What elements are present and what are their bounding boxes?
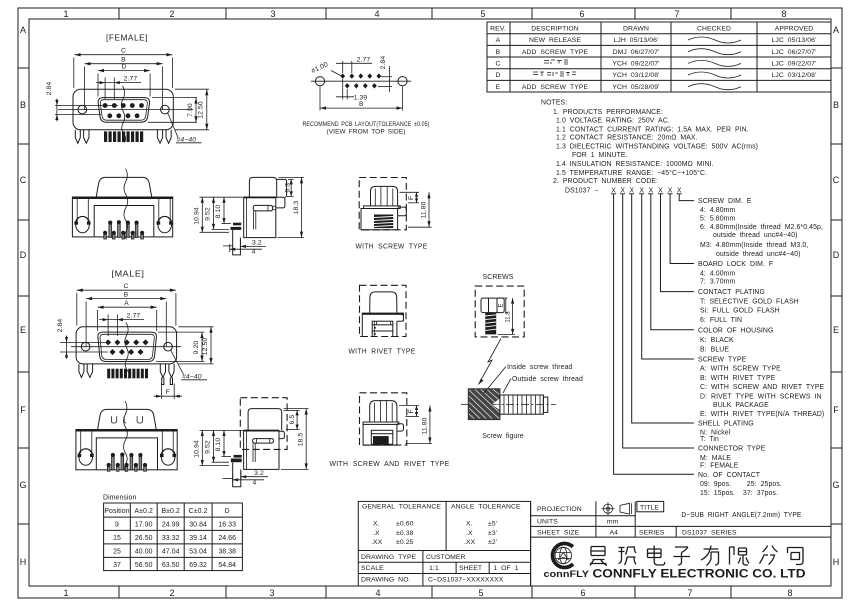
rear side ribs male — [81, 432, 174, 454]
svg-text:REV.: REV. — [490, 26, 506, 33]
svg-text:F: F — [833, 405, 839, 415]
male board lock legs left — [79, 364, 93, 378]
frame column ticks bottom — [119, 586, 731, 598]
dimension table row 25 — [113, 549, 236, 556]
rear side ribs female — [77, 199, 170, 221]
male d-shell inner — [100, 334, 154, 359]
svg-text:F: FEMALE: F: FEMALE — [700, 463, 739, 470]
svg-text:16.33: 16.33 — [218, 522, 236, 529]
pcb dim 2.84 — [378, 66, 392, 92]
male pins row1 — [105, 339, 148, 345]
svg-text:2: 2 — [169, 9, 174, 19]
svg-text:F: F — [20, 405, 26, 415]
pcb pads row2 — [345, 83, 377, 88]
dim C female — [74, 53, 173, 88]
female board lock legs right — [157, 130, 171, 144]
svg-text:PROJECTION: PROJECTION — [537, 506, 582, 513]
svg-text:outside thread unc#4−40): outside thread unc#4−40) — [716, 251, 801, 258]
svg-text:CHECKED: CHECKED — [697, 26, 731, 33]
svg-text:YCH 03/12/08': YCH 03/12/08' — [612, 72, 659, 79]
svg-text:WITH SCREW AND RIVET TYPE: WITH SCREW AND RIVET TYPE — [330, 459, 450, 468]
male mounting hole left — [81, 342, 90, 351]
svg-text:D: D — [495, 72, 500, 79]
screws dim 11.8 — [498, 298, 516, 334]
svg-text:A: A — [124, 300, 129, 307]
female socket pins row2 — [107, 113, 139, 118]
svg-text:38.38: 38.38 — [218, 549, 236, 556]
svg-text:YCH 09/22/07': YCH 09/22/07' — [612, 61, 659, 68]
product tree labels connector type — [698, 446, 766, 470]
rivet shell dome — [370, 292, 397, 313]
svg-text:4: 4 — [252, 479, 256, 486]
side shell top — [249, 177, 276, 197]
svg-text:15: 15 — [113, 535, 121, 542]
svg-text:ANGLE TOLERANCE: ANGLE TOLERANCE — [451, 504, 521, 511]
svg-text:B±0.2: B±0.2 — [161, 508, 180, 515]
dim A male — [98, 306, 157, 332]
side shell top male — [248, 409, 282, 431]
svg-text:.X: .X — [373, 530, 380, 537]
rear inner cavity male — [96, 438, 157, 470]
svg-text:1.4 INSULATION RESISTANCE: 100: 1.4 INSULATION RESISTANCE: 1000MΩ MINI. — [556, 161, 714, 168]
revision row C chinese description — [544, 60, 568, 64]
svg-text:18.5: 18.5 — [298, 433, 305, 447]
screws dim E — [498, 298, 508, 313]
dim 11.80 — [408, 192, 432, 227]
rivet body outline — [362, 313, 403, 337]
svg-text:DESCRIPTION: DESCRIPTION — [531, 26, 579, 33]
notes text block — [541, 100, 758, 195]
frame row letters left — [19, 25, 26, 567]
product tree leader X8 screw dim — [679, 194, 694, 201]
svg-text:4: 4 — [375, 588, 380, 598]
female break squiggle — [121, 86, 125, 143]
svg-text:4: 4 — [374, 9, 379, 19]
svg-text:1:1: 1:1 — [429, 565, 439, 572]
dim 2.84 male — [60, 336, 108, 360]
svg-text:7: 7 — [674, 9, 679, 19]
product tree leader X5 color of housing — [651, 194, 694, 330]
svg-text:SHEET SIZE: SHEET SIZE — [537, 529, 580, 536]
dim 12.50 male — [179, 327, 214, 364]
tolerance block grid — [358, 501, 530, 586]
svg-text:T: SELECTIVE GOLD FLASH: T: SELECTIVE GOLD FLASH — [700, 298, 799, 305]
svg-text:X: X — [639, 187, 644, 194]
svg-text:.XX: .XX — [464, 539, 476, 546]
product tree labels contact plating — [698, 289, 799, 324]
flange bar — [364, 206, 401, 209]
svg-text:CONTACT PLATING: CONTACT PLATING — [698, 289, 765, 296]
svg-text:±0.25: ±0.25 — [396, 539, 414, 546]
svg-text:B: WITH RIVET TYPE: B: WITH RIVET TYPE — [700, 375, 776, 382]
svg-text:A4: A4 — [609, 529, 618, 536]
screws dashed box — [475, 286, 524, 337]
svg-text:11.80: 11.80 — [421, 417, 428, 434]
svg-text:A±0.2: A±0.2 — [134, 508, 153, 515]
svg-text:2.77: 2.77 — [127, 313, 141, 320]
right step — [398, 207, 407, 216]
svg-text:09: 9pos. 25: 25pos.: 09: 9pos. 25: 25pos. — [700, 481, 782, 488]
svg-text:Si: FULL GOLD FLASH: Si: FULL GOLD FLASH — [700, 308, 780, 315]
svg-text:1.1 CONTACT CURRENT RATING: 1.: 1.1 CONTACT CURRENT RATING: 1.5A MAX. PE… — [556, 126, 749, 133]
dim 10.94 — [200, 197, 244, 232]
screw figure centerline — [461, 403, 556, 405]
product tree leader X7 board lock — [670, 194, 694, 264]
svg-text:E: E — [20, 325, 26, 335]
svg-text:63.50: 63.50 — [162, 562, 180, 569]
male break squiggle — [125, 323, 129, 379]
product tree leader X4 screw type — [642, 194, 694, 359]
rear body female — [72, 197, 172, 237]
svg-text:X: X — [648, 187, 653, 194]
svg-text:±3': ±3' — [488, 530, 497, 537]
dimension table row 15 — [113, 535, 236, 542]
connfly logo mark — [553, 543, 573, 567]
svg-text:±0.38: ±0.38 — [396, 530, 414, 537]
4-40 leader female — [168, 113, 179, 138]
rivet body top bar — [362, 313, 403, 315]
rear body top thick edge female — [72, 197, 172, 199]
svg-text:4: 4.00mm: 4: 4.00mm — [700, 271, 736, 278]
sr dim F — [399, 406, 419, 417]
svg-text:E: E — [496, 84, 501, 91]
svg-text:BOARD LOCK DIM. F: BOARD LOCK DIM. F — [698, 261, 773, 268]
sr screw head — [370, 401, 397, 422]
svg-text:6: 6 — [580, 588, 585, 598]
svg-text:Inside screw thread: Inside screw thread — [507, 364, 573, 371]
dim C male — [77, 289, 176, 326]
male pcb pins black bars — [107, 369, 148, 379]
svg-text:A: A — [20, 25, 26, 35]
svg-text:LJC 03/12/08': LJC 03/12/08' — [772, 72, 817, 79]
revision row E — [496, 84, 660, 91]
svg-text:Position: Position — [104, 508, 129, 515]
dim 9.52 male — [212, 430, 230, 462]
svg-text:APPROVED: APPROVED — [775, 26, 814, 33]
product tree leader X2 connector type — [623, 194, 694, 448]
revision table grid — [487, 22, 831, 92]
svg-text:3: 3 — [269, 588, 274, 598]
dim F — [400, 192, 420, 203]
drawing no row — [361, 577, 504, 584]
svg-text:1.5 TEMPERATURE RANGE: −45°C~+: 1.5 TEMPERATURE RANGE: −45°C~+105°C. — [556, 169, 707, 177]
svg-text:11.80: 11.80 — [420, 201, 427, 218]
sr right step — [397, 424, 404, 431]
svg-text:8: 8 — [787, 588, 792, 598]
thread black — [374, 215, 393, 229]
svg-text:4: 4 — [252, 248, 256, 255]
svg-text:56.50: 56.50 — [135, 562, 153, 569]
svg-text:DRAWN: DRAWN — [623, 26, 649, 33]
svg-text:53.04: 53.04 — [189, 549, 207, 556]
svg-text:3: 3 — [270, 9, 275, 19]
svg-text:8.10: 8.10 — [215, 438, 222, 452]
male mounting hole right — [164, 342, 173, 351]
dim 2.84 female — [55, 99, 118, 122]
screw head — [371, 186, 398, 206]
female d-shell inner — [100, 100, 147, 121]
svg-text:B: B — [496, 49, 501, 56]
svg-text:CONNECTOR TYPE: CONNECTOR TYPE — [698, 446, 766, 453]
dim B female — [85, 62, 163, 110]
svg-text:2.84: 2.84 — [380, 56, 387, 70]
rear inner cavity female — [94, 206, 154, 237]
svg-text:10.94: 10.94 — [194, 207, 201, 225]
frame column numbers bottom — [63, 588, 792, 598]
svg-text:DRAWING TYPE: DRAWING TYPE — [361, 554, 417, 561]
drawing type / customer row — [361, 554, 466, 561]
sr rivet black — [373, 436, 389, 444]
product tree labels no of contact — [698, 472, 782, 497]
svg-text:LJH 05/13/06': LJH 05/13/06' — [614, 37, 659, 44]
svg-text:9.52: 9.52 — [205, 207, 212, 221]
side body male — [244, 430, 279, 469]
product tree labels shell plating — [698, 421, 754, 443]
product code X underlines — [611, 193, 682, 195]
side clip slot male — [253, 439, 274, 444]
svg-text:8: 8 — [781, 9, 786, 19]
svg-text:39.14: 39.14 — [189, 535, 207, 542]
svg-text:BULK PACKAGE: BULK PACKAGE — [713, 402, 769, 409]
svg-text:outside thread unc#4−40): outside thread unc#4−40) — [713, 232, 798, 239]
svg-text:M3: 4.80mm(Inside thread M3.0,: M3: 4.80mm(Inside thread M3.0, — [700, 242, 808, 249]
male board lock legs right — [160, 364, 174, 378]
frame column numbers top — [63, 9, 786, 19]
svg-text:24.66: 24.66 — [218, 535, 236, 542]
svg-text:C: C — [20, 175, 27, 185]
svg-text:18.3: 18.3 — [293, 201, 300, 215]
title block grid — [531, 501, 831, 586]
svg-text:YCH 05/28/09': YCH 05/28/09' — [612, 84, 659, 91]
side clip ticks male — [253, 439, 270, 462]
rivet right step — [397, 315, 404, 321]
svg-text:6.5: 6.5 — [289, 415, 296, 425]
svg-text:6: 4.80mm(Inside thread M2.6*0: 6: 4.80mm(Inside thread M2.6*0.45p, — [700, 224, 823, 231]
dim D female — [98, 69, 150, 97]
svg-text:M: MALE: M: MALE — [700, 455, 731, 462]
svg-text:SHELL PLATING: SHELL PLATING — [698, 421, 754, 428]
screws hex head — [481, 298, 504, 313]
frame row ticks right — [831, 68, 842, 524]
rivet head hatch — [374, 322, 390, 337]
side clip slot — [253, 205, 272, 211]
dim 3.2 bottom — [240, 240, 266, 249]
pcb dim 2.77 — [336, 61, 372, 73]
rear screw channels male — [111, 416, 142, 423]
svg-text:A: A — [496, 37, 501, 44]
svg-text:6: FULL TIN: 6: FULL TIN — [700, 317, 742, 324]
svg-text:SCREW TYPE: SCREW TYPE — [698, 357, 747, 364]
rear body top thick edge male — [76, 430, 177, 432]
side leg tick — [223, 245, 233, 247]
svg-text:CUSTOMER: CUSTOMER — [426, 554, 466, 561]
dim 4 bottom — [230, 244, 262, 252]
dimension table row 37 — [113, 562, 236, 569]
title block values — [607, 519, 619, 537]
pcb centerline — [311, 80, 411, 82]
svg-text:24.99: 24.99 — [162, 522, 180, 529]
4-40 leader male — [171, 350, 184, 375]
screws leader zigzag — [479, 339, 502, 385]
side body step right — [276, 197, 285, 208]
svg-text:CONNFLY ELECTRONIC CO. LTD: CONNFLY ELECTRONIC CO. LTD — [593, 568, 806, 581]
svg-text:D: D — [121, 63, 126, 70]
svg-text:C: C — [833, 175, 840, 185]
female centerline — [58, 109, 193, 111]
chinese company name 晨翔电子有限公司 — [590, 546, 803, 566]
dim 3.2 bottom male — [241, 472, 268, 480]
sr rivet inner — [371, 430, 393, 444]
rear shell dome male — [98, 409, 157, 429]
svg-text:5: 5.80mm: 5: 5.80mm — [700, 216, 736, 223]
product tree labels color of housing — [698, 327, 773, 353]
svg-text:9.52: 9.52 — [205, 440, 212, 454]
dashed enclosure rivet — [360, 285, 407, 336]
svg-text:9: 9 — [115, 522, 119, 529]
svg-text:K: BLACK: K: BLACK — [700, 337, 734, 344]
svg-text:1: 1 — [63, 588, 68, 598]
frame column ticks top — [119, 8, 731, 19]
title block labels — [537, 505, 665, 537]
pcb hole right — [398, 77, 407, 86]
svg-text:SCALE: SCALE — [361, 565, 384, 572]
svg-text:26.50: 26.50 — [135, 535, 153, 542]
svg-text:40.00: 40.00 — [135, 549, 153, 556]
rear eyelet right female — [157, 216, 173, 232]
svg-text:mm: mm — [607, 519, 619, 526]
scale / sheet row — [361, 565, 519, 572]
svg-text:12.50: 12.50 — [202, 338, 209, 356]
svg-text:5: 5 — [480, 9, 485, 19]
svg-text:GENERAL TOLERANCE: GENERAL TOLERANCE — [362, 504, 441, 511]
svg-text:F: F — [408, 409, 415, 413]
svg-text:F: F — [408, 196, 415, 200]
female socket pins row1 — [103, 103, 144, 108]
svg-text:4: 4.80mm: 4: 4.80mm — [700, 207, 736, 214]
svg-text:C: WITH SCREW AND RIVET TYPE: C: WITH SCREW AND RIVET TYPE — [700, 384, 825, 391]
revision row A — [496, 37, 817, 44]
sr lower body — [363, 424, 397, 445]
svg-text:TITLE: TITLE — [640, 505, 659, 512]
svg-text:WITH SCREW TYPE: WITH SCREW TYPE — [356, 242, 428, 251]
svg-text:30.84: 30.84 — [189, 522, 207, 529]
svg-text:E: E — [833, 325, 839, 335]
svg-text:ADD SCREW TYPE: ADD SCREW TYPE — [522, 84, 589, 91]
svg-text:X.: X. — [466, 521, 473, 528]
svg-text:7: 3.70mm: 7: 3.70mm — [700, 279, 736, 286]
svg-text:DS1037 −: DS1037 − — [565, 187, 599, 194]
svg-text:X: X — [629, 187, 634, 194]
female d-shell outer — [98, 98, 149, 123]
rear pins female — [103, 220, 144, 239]
dimension table header row — [104, 508, 229, 515]
dim 2.77 male — [99, 315, 144, 337]
svg-text:LJC 06/27/07': LJC 06/27/07' — [772, 49, 817, 56]
dashed enclosure male side — [240, 398, 287, 450]
revision row D chinese description — [533, 72, 576, 76]
svg-text:25: 25 — [113, 549, 121, 556]
svg-text:G: G — [19, 480, 26, 490]
female board lock legs left — [75, 130, 89, 144]
female mounting hole right — [161, 105, 170, 114]
svg-text:C: C — [121, 48, 126, 55]
side clip stem — [254, 206, 276, 230]
dim 8.10 male — [222, 430, 232, 456]
revision row C — [495, 61, 816, 68]
svg-text:H: H — [833, 557, 840, 567]
svg-text:±0.60: ±0.60 — [396, 521, 414, 528]
svg-text:54.84: 54.84 — [218, 562, 236, 569]
rear shell dome female — [96, 177, 152, 197]
svg-text:[FEMALE]: [FEMALE] — [106, 34, 148, 43]
dimension table row 9 — [115, 522, 236, 529]
checked column signature squiggles — [688, 37, 741, 90]
projection symbol cone — [620, 503, 632, 514]
svg-text:.XX: .XX — [371, 539, 383, 546]
male pins row2 — [110, 349, 144, 355]
svg-text:C: C — [495, 61, 500, 68]
svg-text:DRAWING NO.: DRAWING NO. — [361, 577, 411, 584]
svg-text:X: X — [677, 187, 682, 194]
svg-text:RECOMMEND PCB LAYOUT(TOLERANCE: RECOMMEND PCB LAYOUT(TOLERANCE ±0.05) — [303, 121, 430, 128]
svg-text:NEW RELEASE: NEW RELEASE — [529, 37, 581, 44]
dim 6.5 male — [284, 410, 300, 429]
svg-text:7.90: 7.90 — [187, 103, 194, 117]
svg-text:X: X — [668, 187, 673, 194]
svg-text:(VIEW FROM TOP SIDE): (VIEW FROM TOP SIDE) — [327, 128, 406, 135]
svg-text:D−SUB RIGHT ANGLE(7.2mm) TYPE: D−SUB RIGHT ANGLE(7.2mm) TYPE — [681, 512, 801, 519]
svg-text:SHEET: SHEET — [459, 565, 482, 572]
svg-text:SERIES: SERIES — [639, 529, 665, 536]
svg-text:B: BLUE: B: BLUE — [700, 346, 729, 353]
product code X marks — [611, 187, 682, 194]
svg-text:69.32: 69.32 — [189, 562, 207, 569]
dim B male — [86, 297, 166, 347]
rear pins male — [107, 453, 147, 472]
rear break squiggle female — [124, 169, 128, 240]
side pins black — [233, 223, 241, 226]
screw nut knurled — [468, 389, 500, 420]
svg-text:B: B — [124, 291, 129, 298]
svg-text:COLOR OF HOUSING: COLOR OF HOUSING — [698, 327, 773, 334]
svg-text:No. OF CONTACT: No. OF CONTACT — [698, 472, 761, 479]
pcb pads row1 — [340, 73, 381, 78]
svg-text:6: 6 — [579, 9, 584, 19]
svg-text:ADD SCREW TYPE: ADD SCREW TYPE — [522, 49, 589, 56]
svg-text:1.3 DIELECTRIC WITHSTANDING VO: 1.3 DIELECTRIC WITHSTANDING VOLTAGE: 500… — [556, 144, 758, 151]
dim 12.50 female — [175, 89, 209, 130]
male flange body — [76, 327, 177, 364]
svg-text:3.2: 3.2 — [254, 470, 264, 477]
sr dim 11.80 — [406, 406, 433, 444]
svg-text:2. PRODUCT NUMBER CODE:: 2. PRODUCT NUMBER CODE: — [553, 178, 658, 185]
svg-text:1. PRODUCTS PERFORMANCE:: 1. PRODUCTS PERFORMANCE: — [553, 109, 663, 116]
female pcb pins black bars — [104, 131, 143, 142]
dim 8.10 — [222, 197, 232, 223]
svg-text:D: RIVET TYPE WITH SCREWS IN: D: RIVET TYPE WITH SCREWS IN — [700, 394, 822, 401]
svg-text:12.50: 12.50 — [198, 101, 205, 119]
dim F male bottom — [154, 384, 183, 400]
general tolerance text — [362, 504, 441, 547]
svg-text:D: D — [20, 250, 27, 260]
male right prongs — [162, 378, 173, 385]
svg-text:1: 1 — [63, 9, 68, 19]
dashed enclosure sr — [360, 393, 407, 445]
rivet legs — [362, 336, 397, 338]
male d-shell outer — [98, 332, 157, 361]
product tree labels board lock F — [698, 261, 773, 286]
product tree leader X1 no of contact — [614, 194, 694, 475]
